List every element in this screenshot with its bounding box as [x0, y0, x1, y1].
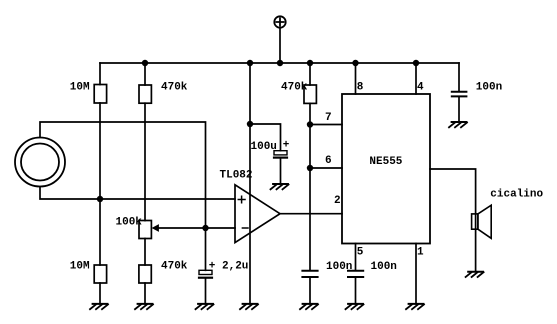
resistor R5 470k (to pin 7) [304, 63, 316, 270]
wire inverting input from wiper arrow [159, 227, 236, 229]
power supply V+ symbol [274, 16, 285, 27]
IC U2 NE555 [342, 94, 430, 244]
svg-text:NE555: NE555 [369, 156, 402, 168]
svg-text:100n: 100n [371, 261, 397, 273]
svg-text:2: 2 [334, 195, 341, 207]
svg-text:100u: 100u [251, 141, 277, 153]
node rail-power [277, 60, 283, 66]
svg-text:6: 6 [325, 155, 332, 167]
wire pin 6 [310, 167, 342, 169]
svg-text:TL082: TL082 [220, 170, 253, 182]
wire mic bottom to non-inverting input [40, 187, 235, 199]
resistor R2 470k (top) [139, 63, 151, 221]
ground below C4 [346, 304, 364, 309]
microphone MIC [15, 138, 65, 187]
wire pin 8 [355, 63, 357, 94]
svg-text:+ 2,2u: + 2,2u [209, 261, 249, 273]
svg-text:100n: 100n [476, 81, 502, 93]
wire power stub [279, 28, 281, 63]
ground below speaker [466, 272, 484, 277]
resistor R3 10M (bottom left) [94, 265, 106, 304]
wire pin 7 [310, 124, 342, 126]
node rail-R2 [142, 60, 148, 66]
wire op-amp output to pin 2 [280, 213, 342, 215]
resistor R4 470k (bottom) [139, 265, 151, 304]
ground below pin 1 [406, 304, 424, 309]
capacitor C1 2,2u electrolytic [199, 228, 212, 304]
capacitor C5 100n (supply bypass) [452, 63, 467, 122]
node rail-pin4 [413, 60, 419, 66]
node rail-R5 [307, 60, 313, 66]
wire pin 1 to ground [415, 244, 417, 304]
ground below op-amp supply [240, 304, 258, 309]
svg-text:470k: 470k [161, 82, 188, 94]
wire mic top to inverting input column [40, 122, 206, 228]
svg-text:4: 4 [417, 82, 424, 94]
svg-text:100k: 100k [116, 217, 143, 229]
svg-text:cicalino: cicalino [490, 189, 543, 201]
resistor R1 10M (top left) [94, 63, 106, 265]
svg-text:470k: 470k [161, 261, 188, 273]
capacitor C2 100u electrolytic [250, 124, 287, 184]
svg-text:470k: 470k [281, 82, 308, 94]
potentiometer P1 100k [139, 221, 159, 266]
node mic wire / R1 column [97, 196, 103, 202]
svg-text:10M: 10M [70, 261, 90, 273]
speaker LS1 (cicalino) [472, 205, 492, 238]
wire pin 4 [415, 63, 417, 94]
svg-text:8: 8 [357, 82, 364, 94]
svg-text:10M: 10M [70, 82, 90, 94]
wire V+ rail [100, 62, 459, 64]
svg-text:+: + [283, 140, 290, 152]
node inverting input / C-2,2u [202, 225, 208, 231]
wire op-amp supply vertical [249, 63, 251, 304]
ground below C1 [196, 304, 214, 309]
op-amp U1 TL082 [235, 185, 280, 243]
capacitor C3 100n (timing) [302, 271, 317, 304]
node pin7 junction [307, 121, 313, 127]
ground below R3 [90, 304, 108, 309]
ground below C5 [449, 122, 467, 127]
node rail-pin8 [352, 60, 358, 66]
ground below C2 [271, 184, 289, 189]
ground below C3 [300, 304, 318, 309]
capacitor C4 100n (pin 5) [348, 244, 363, 304]
svg-text:5: 5 [357, 247, 364, 259]
node pin6 junction [307, 165, 313, 171]
node supply / C-100u branch [247, 121, 253, 127]
node rail-opamp-supply [247, 60, 253, 66]
svg-text:1: 1 [417, 247, 424, 259]
wire pin 3 to speaker [430, 169, 476, 272]
svg-text:7: 7 [325, 112, 332, 124]
ground below R4 [135, 304, 153, 309]
